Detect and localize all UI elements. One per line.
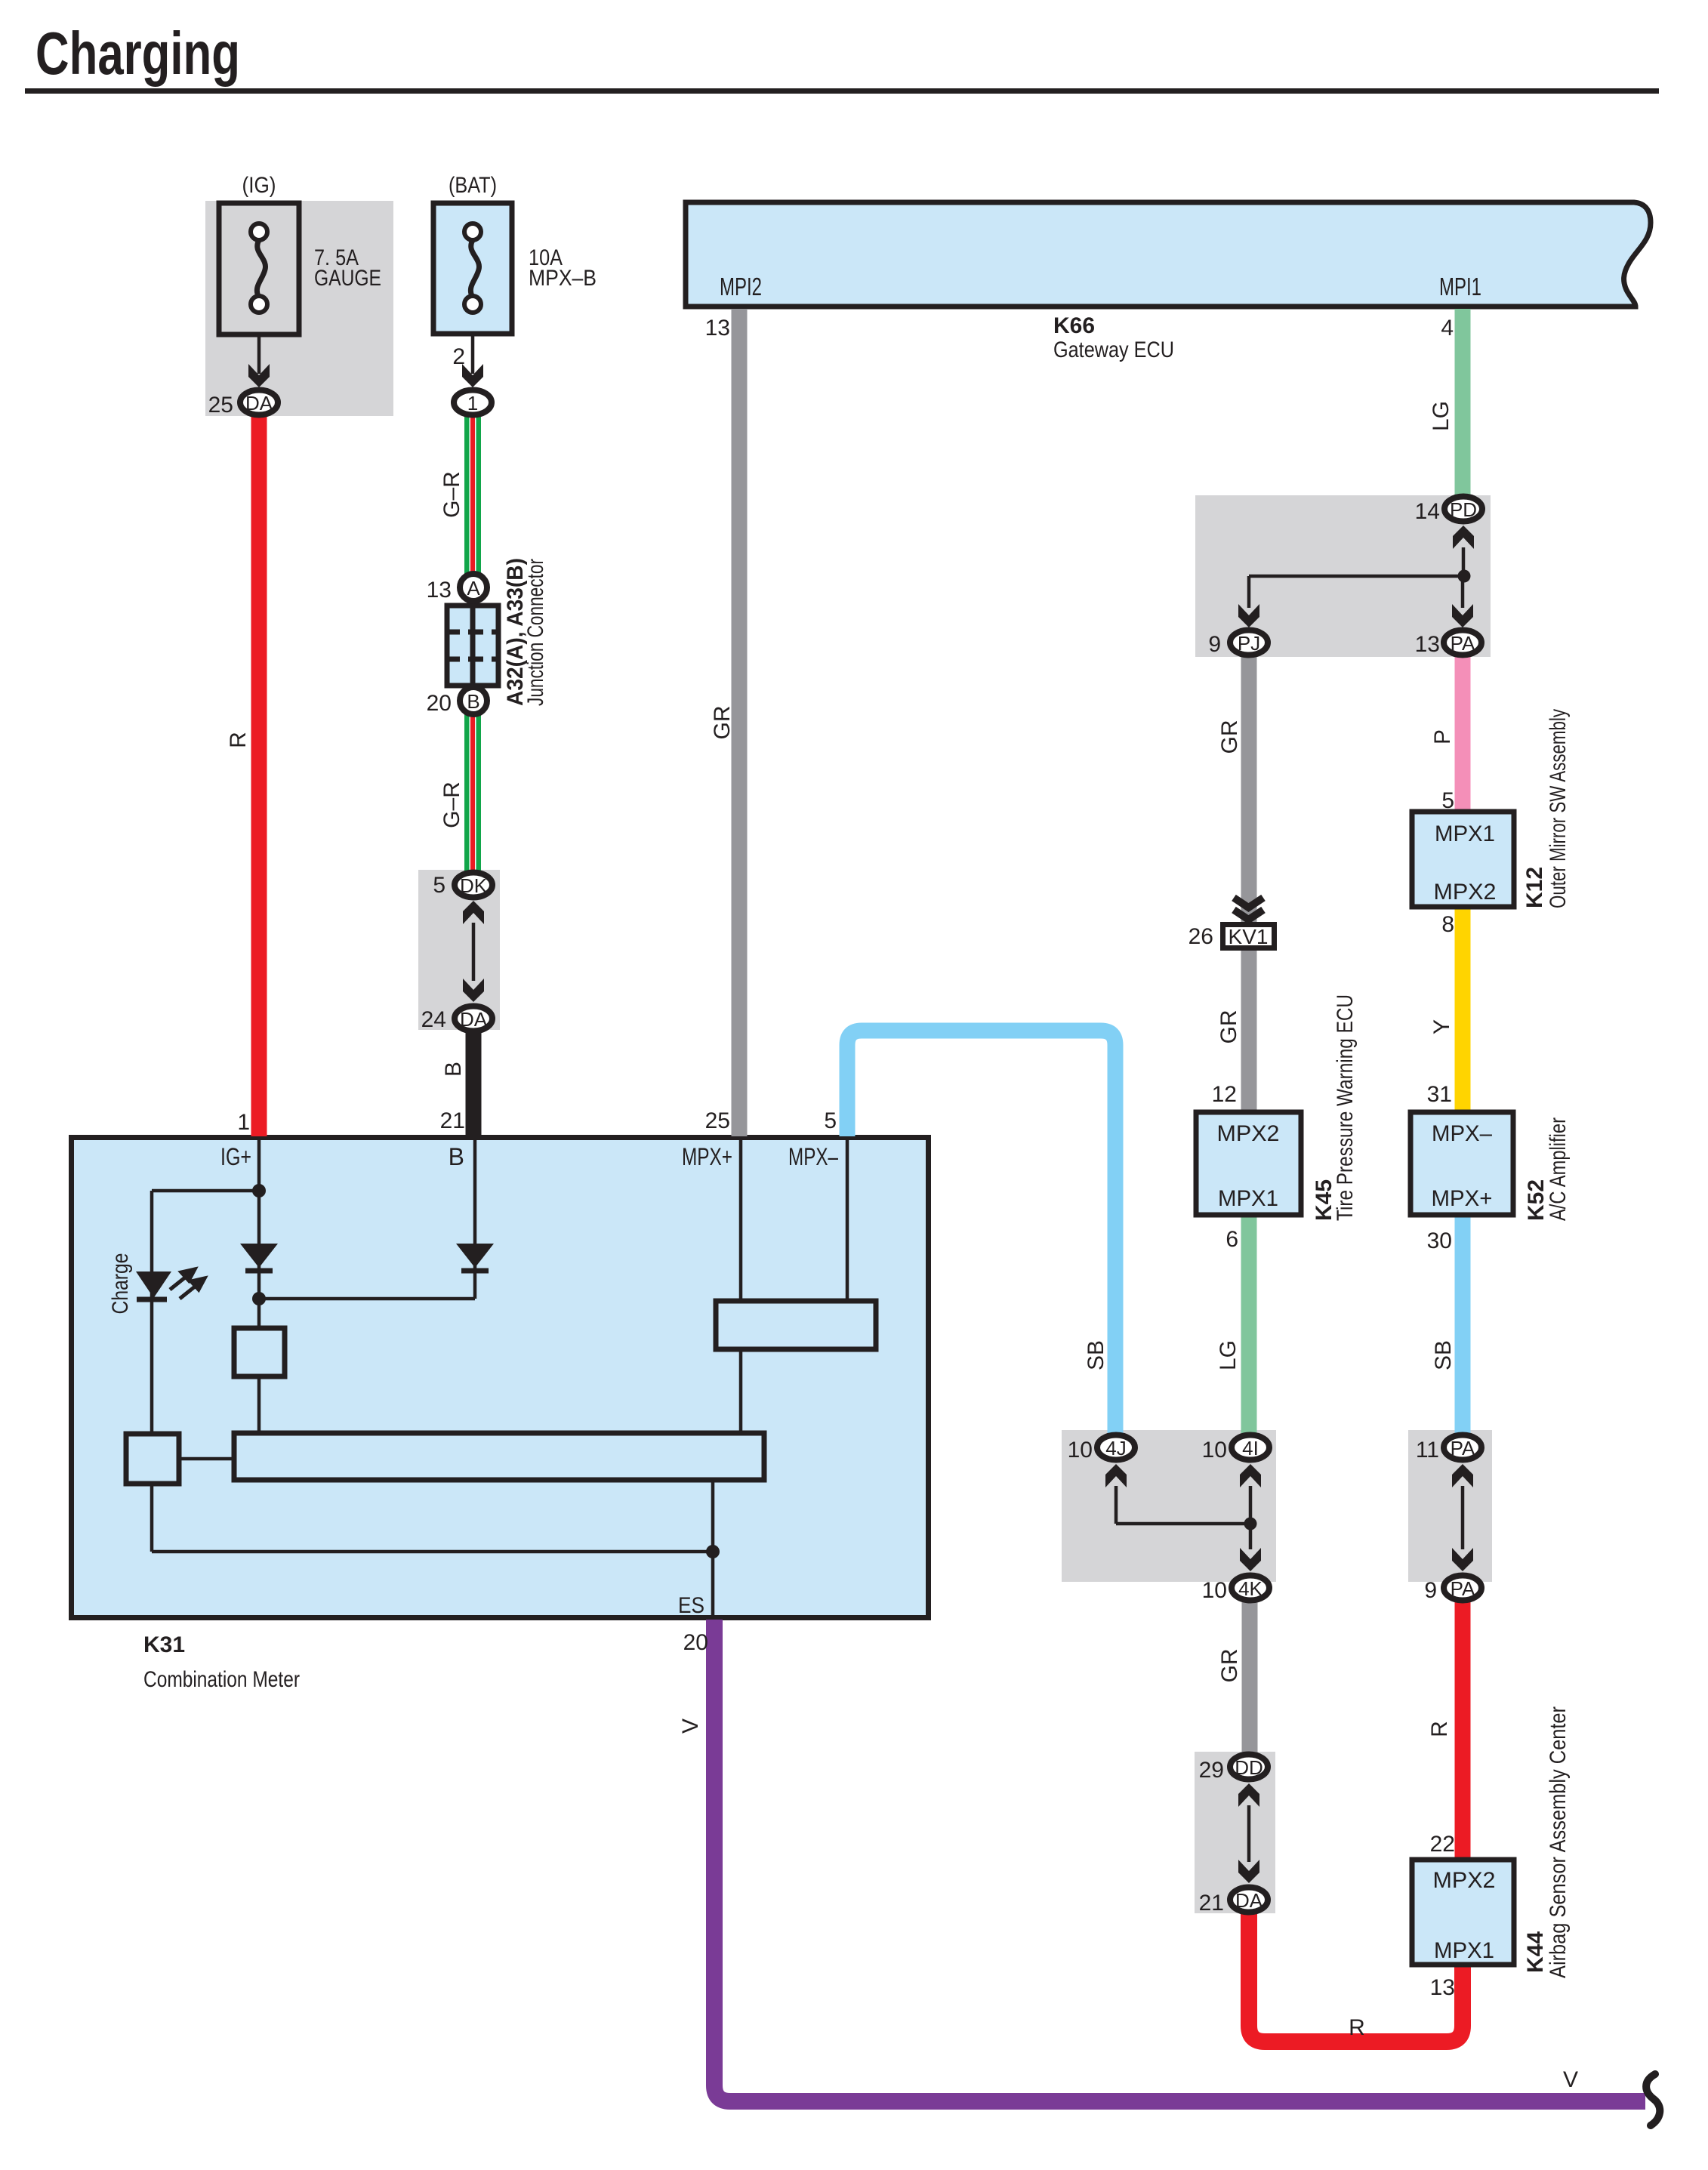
svg-text:MPX–: MPX– — [788, 1143, 838, 1170]
svg-text:9: 9 — [1208, 632, 1221, 657]
svg-text:13: 13 — [705, 316, 730, 341]
svg-text:MPX+: MPX+ — [682, 1143, 732, 1170]
svg-text:GR: GR — [1217, 1649, 1242, 1683]
svg-text:Outer Mirror SW Assembly: Outer Mirror SW Assembly — [1546, 709, 1571, 908]
svg-text:Charging: Charging — [35, 20, 240, 87]
svg-text:1: 1 — [237, 1110, 250, 1135]
svg-text:29: 29 — [1199, 1758, 1224, 1783]
svg-text:K31: K31 — [143, 1632, 185, 1657]
svg-text:MPX1: MPX1 — [1218, 1186, 1278, 1211]
svg-text:PJ: PJ — [1238, 632, 1260, 655]
svg-text:GR: GR — [1216, 1010, 1241, 1044]
svg-text:10: 10 — [1202, 1578, 1227, 1603]
svg-text:10: 10 — [1202, 1438, 1227, 1463]
svg-text:KV1: KV1 — [1229, 925, 1269, 948]
svg-text:20: 20 — [683, 1630, 708, 1655]
svg-text:A/C Amplifier: A/C Amplifier — [1546, 1117, 1571, 1221]
svg-text:DA: DA — [245, 392, 273, 415]
svg-text:B: B — [467, 690, 479, 713]
svg-text:Airbag Sensor Assembly Center: Airbag Sensor Assembly Center — [1546, 1706, 1571, 1978]
svg-text:MPX2: MPX2 — [1433, 1868, 1496, 1893]
svg-text:P: P — [1430, 729, 1455, 744]
svg-text:Charge: Charge — [108, 1253, 133, 1315]
svg-text:14: 14 — [1415, 499, 1440, 524]
svg-text:K44: K44 — [1523, 1931, 1548, 1973]
svg-text:20: 20 — [427, 691, 452, 716]
svg-text:ES: ES — [678, 1593, 704, 1618]
svg-text:G–R: G–R — [439, 471, 464, 518]
svg-text:DK: DK — [460, 874, 488, 897]
svg-text:26: 26 — [1189, 924, 1213, 949]
svg-text:PD: PD — [1450, 498, 1477, 521]
svg-text:V: V — [1563, 2067, 1578, 2092]
svg-text:8: 8 — [1441, 912, 1454, 937]
svg-text:11: 11 — [1416, 1438, 1439, 1463]
svg-text:4: 4 — [1441, 316, 1454, 341]
svg-text:GR: GR — [1217, 720, 1242, 754]
svg-text:R: R — [1349, 2015, 1365, 2040]
svg-text:13: 13 — [427, 578, 452, 603]
svg-text:5: 5 — [1441, 788, 1454, 813]
svg-text:(IG): (IG) — [242, 173, 276, 198]
svg-text:R: R — [1427, 1721, 1452, 1737]
svg-text:Tire Pressure Warning ECU: Tire Pressure Warning ECU — [1333, 994, 1358, 1221]
svg-text:GAUGE: GAUGE — [314, 266, 381, 291]
svg-text:12: 12 — [1212, 1082, 1237, 1107]
svg-text:MPI2: MPI2 — [720, 273, 762, 301]
svg-text:MPI1: MPI1 — [1439, 273, 1481, 301]
svg-text:PA: PA — [1451, 632, 1475, 655]
svg-text:10: 10 — [1068, 1438, 1093, 1463]
svg-text:MPX2: MPX2 — [1434, 880, 1497, 905]
svg-text:4K: 4K — [1238, 1577, 1263, 1600]
svg-text:R: R — [226, 732, 251, 748]
svg-text:K12: K12 — [1522, 867, 1547, 908]
svg-text:Y: Y — [1429, 1019, 1454, 1034]
svg-text:A: A — [467, 577, 480, 600]
svg-text:4I: 4I — [1242, 1437, 1259, 1460]
svg-text:Combination Meter: Combination Meter — [143, 1667, 300, 1692]
svg-text:MPX1: MPX1 — [1434, 1938, 1494, 1963]
svg-text:2: 2 — [452, 344, 465, 369]
svg-text:MPX1: MPX1 — [1435, 821, 1495, 846]
svg-text:DA: DA — [1235, 1889, 1263, 1912]
svg-text:31: 31 — [1427, 1082, 1452, 1107]
svg-text:25: 25 — [208, 393, 233, 418]
svg-text:MPX–B: MPX–B — [529, 266, 597, 291]
svg-text:PA: PA — [1451, 1437, 1475, 1460]
svg-text:PA: PA — [1451, 1577, 1475, 1600]
svg-text:SB: SB — [1431, 1340, 1456, 1370]
svg-text:DA: DA — [460, 1008, 488, 1031]
svg-text:K66: K66 — [1053, 313, 1095, 338]
svg-text:5: 5 — [433, 873, 445, 898]
svg-text:21: 21 — [1199, 1891, 1224, 1916]
svg-text:LG: LG — [1429, 401, 1454, 431]
svg-text:B: B — [441, 1062, 466, 1077]
svg-text:9: 9 — [1424, 1578, 1437, 1603]
svg-text:Gateway ECU: Gateway ECU — [1053, 338, 1174, 362]
svg-text:22: 22 — [1430, 1832, 1455, 1857]
svg-text:LG: LG — [1216, 1340, 1241, 1370]
svg-text:V: V — [678, 1718, 703, 1734]
svg-text:G–R: G–R — [439, 781, 464, 828]
svg-text:MPX+: MPX+ — [1432, 1186, 1493, 1211]
svg-text:Junction Connector: Junction Connector — [523, 559, 548, 706]
svg-text:IG+: IG+ — [220, 1143, 251, 1170]
svg-text:21: 21 — [440, 1108, 465, 1133]
svg-text:6: 6 — [1226, 1227, 1238, 1252]
svg-text:SB: SB — [1084, 1340, 1108, 1370]
svg-text:24: 24 — [421, 1007, 446, 1032]
svg-text:1: 1 — [467, 392, 478, 415]
svg-text:GR: GR — [710, 706, 735, 740]
svg-text:B: B — [449, 1143, 464, 1170]
svg-text:MPX2: MPX2 — [1217, 1121, 1280, 1146]
svg-text:25: 25 — [705, 1108, 730, 1133]
svg-text:4J: 4J — [1105, 1437, 1126, 1460]
svg-text:DD: DD — [1235, 1756, 1263, 1779]
svg-text:13: 13 — [1415, 632, 1440, 657]
svg-text:MPX–: MPX– — [1432, 1121, 1492, 1146]
svg-text:(BAT): (BAT) — [449, 173, 497, 198]
svg-text:30: 30 — [1427, 1228, 1452, 1253]
svg-text:5: 5 — [824, 1108, 837, 1133]
svg-text:13: 13 — [1430, 1975, 1455, 2000]
